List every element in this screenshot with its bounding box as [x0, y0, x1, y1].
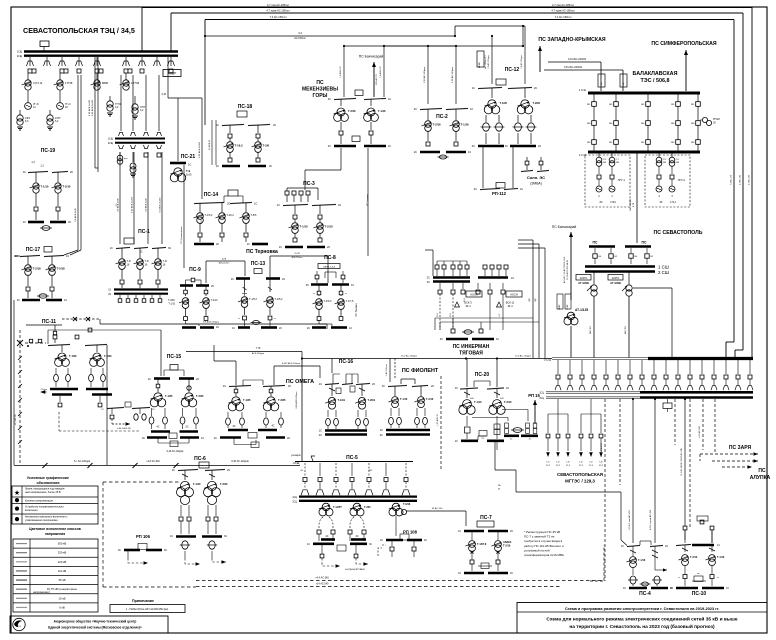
svg-text:1С: 1С [351, 284, 354, 287]
svg-text:4С: 4С [472, 145, 475, 148]
svg-text:55,79 АСО-300 2А,7Б: 55,79 АСО-300 2А,7Б [566, 259, 569, 279]
svg-text:+22 АС-240: +22 АС-240 [698, 425, 701, 437]
svg-text:1СЦ: 1СЦ [539, 393, 544, 395]
svg-text:1С: 1С [520, 188, 523, 191]
svg-text:2АС-240/39: 2АС-240/39 [629, 198, 632, 210]
svg-text:2СЦ: 2СЦ [292, 502, 297, 504]
svg-text:ПС Бахчисарай: ПС Бахчисарай [552, 225, 577, 229]
svg-text:Т-1/07,8: Т-1/07,8 [477, 543, 487, 546]
svg-text:(ЗМВА): (ЗМВА) [530, 182, 542, 186]
svg-text:7,4 АС-150гол: 7,4 АС-150гол [270, 15, 287, 19]
svg-text:ПС: ПС [593, 241, 598, 245]
svg-text:1С: 1С [388, 98, 391, 101]
svg-text:2АС-300: 2АС-300 [589, 325, 592, 334]
svg-text:1С: 1С [455, 440, 458, 443]
svg-text:резерв: резерв [292, 453, 301, 457]
svg-text:напряжения: напряжения [45, 532, 65, 536]
svg-text:2С: 2С [328, 145, 331, 148]
svg-text:ПС-14: ПС-14 [204, 192, 219, 198]
svg-text:ЭкСПДВЭкПВПУВАУВ: ЭкСПДВЭкПВПУВАУВ [345, 568, 365, 571]
svg-text:1С: 1С [470, 108, 473, 111]
svg-text:6,45 АС-120дов: 6,45 АС-120дов [167, 450, 184, 453]
svg-text:1С: 1С [388, 145, 391, 148]
svg-text:2С: 2С [216, 243, 219, 246]
svg-text:2 СШ: 2 СШ [658, 270, 669, 275]
svg-text:1С: 1С [455, 387, 458, 390]
svg-text:4,7 АС-185: 4,7 АС-185 [748, 174, 751, 185]
svg-text:2С: 2С [510, 572, 513, 575]
svg-text:ПС: ПС [758, 468, 766, 474]
svg-text:1С: 1С [511, 277, 514, 280]
svg-text:Т-2/20: Т-2/20 [104, 354, 112, 358]
svg-text:рез: рез [124, 158, 127, 160]
svg-text:* Реконструкция ПС 35 кВ: * Реконструкция ПС 35 кВ [524, 530, 560, 534]
svg-text:7,78: 7,78 [256, 347, 261, 350]
svg-text:6,6 Б,1 прав АС-150: 6,6 Б,1 прав АС-150 [649, 509, 652, 530]
svg-text:3,06 АС-150дов: 3,06 АС-150дов [423, 66, 426, 83]
svg-text:3,18: 3,18 [161, 93, 166, 96]
svg-text:1С: 1С [319, 383, 322, 386]
svg-text:Т-2/5,2: Т-2/5,2 [275, 298, 284, 301]
svg-text:Т-2/19: Т-2/19 [368, 398, 376, 402]
svg-text:4,8 2АС-240/32: 4,8 2АС-240/32 [568, 57, 587, 61]
svg-text:ТЯГОВАЯ: ТЯГОВАЯ [459, 351, 483, 357]
svg-text:1С: 1С [382, 385, 385, 388]
svg-text:1С: 1С [380, 429, 383, 432]
svg-text:ПС Терновка: ПС Терновка [246, 249, 278, 255]
svg-text:3С: 3С [427, 281, 430, 284]
svg-text:6С: 6С [164, 549, 167, 552]
svg-text:0,9 АСБ-3х95: 0,9 АСБ-3х95 [74, 207, 77, 221]
svg-text:35,3: 35,3 [464, 298, 466, 302]
svg-text:4,8 2АС-240/32: 4,8 2АС-240/32 [564, 65, 583, 69]
svg-text:Г-1/: Г-1/ [546, 462, 550, 464]
svg-text:ПС Нахимовская: ПС Нахимовская [181, 226, 183, 244]
svg-text:2С: 2С [327, 246, 330, 249]
svg-text:1С: 1С [148, 378, 151, 381]
svg-text:6,6 Б,1 лев АС-150: 6,6 Б,1 лев АС-150 [628, 510, 631, 530]
svg-text:ОАПВ-Т-0,8: ОАПВ-Т-0,8 [323, 265, 336, 268]
svg-text:Т-1/10: Т-1/10 [400, 398, 408, 401]
svg-text:0,9 АСБ-95: 0,9 АСБ-95 [208, 139, 211, 150]
svg-text:ПС-11: ПС-11 [42, 319, 56, 325]
svg-text:Т-1/10: Т-1/10 [168, 304, 175, 306]
svg-text:Т-20,2: Т-20,2 [227, 214, 235, 217]
svg-text:Схема и программа развития эле: Схема и программа развития электроэнерге… [565, 606, 719, 611]
svg-text:РП 106: РП 106 [136, 534, 151, 539]
svg-text:нт: нт [313, 293, 315, 295]
svg-text:35 кВ: 35 кВ [59, 578, 66, 582]
svg-text:ПС Тоновка: ПС Тоновка [367, 193, 369, 206]
svg-text:500 кВ: 500 кВ [58, 542, 67, 546]
svg-text:1СЩ: 1СЩ [17, 52, 23, 54]
svg-text:34 АС-150: 34 АС-150 [432, 507, 443, 510]
svg-text:+14 АС-240: +14 АС-240 [316, 583, 329, 586]
svg-text:1С: 1С [231, 278, 234, 281]
svg-text:АПВР: АПВР [558, 304, 561, 310]
svg-text:2С: 2С [414, 151, 417, 154]
svg-text:1С: 1С [101, 409, 104, 411]
svg-text:напряжение): напряжение) [33, 590, 50, 594]
svg-text:1С: 1С [254, 203, 257, 206]
svg-text:Т-2/16: Т-2/16 [503, 545, 511, 548]
svg-text:+4,4 АС-240: +4,4 АС-240 [315, 577, 329, 580]
svg-text:Т-2/20: Т-2/20 [533, 101, 541, 105]
svg-text:4,7 лев.АС-185гол: 4,7 лев.АС-185гол [552, 3, 574, 7]
svg-text:0,9 АСБ-3х150: 0,9 АСБ-3х150 [159, 197, 162, 213]
svg-text:1С: 1С [223, 385, 226, 388]
svg-text:1,05 АС-70: 1,05 АС-70 [375, 74, 378, 86]
svg-text:РП-112: РП-112 [492, 191, 507, 196]
svg-text:1С: 1С [172, 469, 175, 472]
svg-text:ПС: ПС [642, 241, 647, 245]
svg-text:6,05 АСБ-2х240: 6,05 АСБ-2х240 [88, 99, 91, 116]
svg-text:10 кВ: 10 кВ [59, 596, 66, 600]
svg-text:0,4Б 3х3БЛ-120: 0,4Б 3х3БЛ-120 [117, 428, 131, 430]
svg-text:2С: 2С [510, 530, 513, 533]
svg-text:2С: 2С [68, 221, 71, 224]
svg-text:ОСЩ: ОСЩ [544, 358, 552, 362]
svg-text:1С: 1С [380, 539, 383, 542]
svg-text:МВМ: МВМ [102, 81, 108, 85]
svg-text:АОПО: АОПО [612, 276, 620, 280]
svg-text:34,4: 34,4 [465, 304, 471, 308]
svg-text:Колонка синхронизации: Колонка синхронизации [25, 500, 53, 503]
svg-text:ПС СИМФЕРОПОЛЬСКАЯ: ПС СИМФЕРОПОЛЬСКАЯ [651, 41, 717, 47]
svg-text:ПС-16: ПС-16 [339, 359, 354, 365]
svg-text:ПС-2: ПС-2 [436, 114, 448, 120]
svg-text:2С: 2С [196, 378, 199, 381]
svg-text:1С: 1С [472, 87, 475, 90]
svg-text:Т-5/18: Т-5/18 [57, 267, 66, 271]
svg-text:ПС-4: ПС-4 [639, 591, 651, 597]
svg-text:АПВР: АПВР [478, 62, 481, 68]
svg-text:СЕВАСТОПОЛЬСКАЯ: СЕВАСТОПОЛЬСКАЯ [557, 472, 603, 477]
svg-text:6,2: 6,2 [499, 314, 501, 317]
svg-text:улавливанием синхронизма: улавливанием синхронизма [25, 519, 58, 522]
svg-text:2С: 2С [670, 587, 673, 590]
svg-text:2С: 2С [440, 338, 443, 341]
svg-text:Т-2/10: Т-2/10 [62, 185, 71, 189]
svg-text:на территории г. Севастополь н: на территории г. Севастополь на 2023 год… [569, 623, 715, 630]
svg-text:Т-1/20: Т-1/20 [500, 101, 508, 105]
svg-text:Т-5/6: Т-5/6 [251, 214, 257, 217]
svg-text:2С: 2С [482, 438, 485, 440]
svg-text:2С: 2С [227, 203, 230, 206]
svg-text:4,7 лев.АС-185гол: 4,7 лев.АС-185гол [267, 3, 289, 7]
svg-text:35,3: 35,3 [437, 313, 439, 317]
svg-text:6,45 АС-120дов: 6,45 АС-120дов [231, 460, 249, 463]
svg-text:3С: 3С [232, 425, 235, 428]
svg-text:1С: 1С [319, 430, 322, 433]
svg-text:Т-2/16: Т-2/16 [433, 123, 442, 127]
svg-text:1С: 1С [110, 247, 113, 250]
svg-text:МЕКЕНЗИЕВЫ: МЕКЕНЗИЕВЫ [302, 87, 338, 93]
svg-text:Г-4/: Г-4/ [579, 462, 583, 464]
svg-text:Г-6/: Г-6/ [599, 462, 603, 464]
svg-text:2С: 2С [288, 385, 291, 388]
svg-text:1,6 АСБ-150: 1,6 АСБ-150 [379, 65, 382, 77]
svg-text:2С: 2С [538, 145, 541, 148]
svg-text:1С: 1С [458, 530, 461, 533]
svg-text:СЕВАСТОПОЛЬСКАЯ ТЭЦ / 34,5: СЕВАСТОПОЛЬСКАЯ ТЭЦ / 34,5 [23, 26, 135, 35]
svg-text:Схема для нормального режима э: Схема для нормального режима электрическ… [546, 616, 737, 623]
svg-text:БАЛАКЛАВСКАЯ: БАЛАКЛАВСКАЯ [633, 71, 678, 77]
svg-text:ПС СЕВАСТОПОЛЬ: ПС СЕВАСТОПОЛЬ [654, 230, 703, 236]
svg-text:ПС ФИОЛЕНТ: ПС ФИОЛЕНТ [402, 368, 439, 374]
svg-text:1С: 1С [510, 439, 513, 441]
svg-text:Т-1/25: Т-1/25 [243, 398, 251, 402]
svg-text:АС-120исп 2,1: АС-120исп 2,1 [484, 54, 487, 68]
svg-text:ПС-19: ПС-19 [41, 148, 56, 154]
svg-text:ПГУ-2: ПГУ-2 [678, 178, 686, 182]
svg-text:0,9 АСБ-3х95: 0,9 АСБ-3х95 [145, 197, 148, 211]
svg-text:4С: 4С [156, 426, 159, 429]
svg-text:1С: 1С [216, 165, 219, 168]
svg-text:ПС-13: ПС-13 [251, 261, 266, 267]
svg-text:ПС-7 с заменой Т2 не: ПС-7 с заменой Т2 не [524, 535, 555, 539]
svg-text:ПС: ПС [316, 80, 324, 86]
svg-text:ПС-5: ПС-5 [346, 455, 358, 461]
svg-text:БСВР: БСВР [567, 304, 569, 310]
svg-text:2С: 2С [325, 535, 328, 538]
svg-text:1СЦ: 1СЦ [292, 497, 297, 499]
svg-text:ПС ЗАРЯ: ПС ЗАРЯ [729, 445, 752, 451]
svg-text:ПС-18: ПС-18 [238, 104, 253, 110]
svg-text:+0,7 АС-95: +0,7 АС-95 [14, 414, 17, 426]
svg-text:2С: 2С [273, 124, 276, 127]
svg-text:вкг: вкг [697, 573, 700, 575]
svg-text:МГТЭС / 129,3: МГТЭС / 129,3 [565, 479, 595, 484]
svg-text:Т-2/40: Т-2/40 [220, 482, 228, 486]
svg-text:ПГУ-1: ПГУ-1 [618, 178, 626, 182]
svg-text:1С: 1С [188, 163, 191, 167]
svg-text:0,28 АС-150дов: 0,28 АС-150дов [451, 66, 454, 83]
svg-text:ПС-20: ПС-20 [475, 372, 490, 378]
svg-text:Т-4/6С: Т-4/6С [168, 300, 175, 302]
svg-text:1С: 1С [279, 246, 282, 249]
svg-text:ПС-8: ПС-8 [324, 255, 336, 261]
svg-text:Т-1/16: Т-1/16 [638, 559, 646, 562]
svg-text:1С: 1С [247, 243, 250, 246]
svg-text:Т-16,3: Т-16,3 [235, 144, 244, 148]
svg-text:1С: 1С [216, 124, 219, 127]
svg-text:2С: 2С [427, 277, 430, 280]
svg-text:ПС-10: ПС-10 [692, 591, 707, 597]
svg-text:1,6 АСБ-150: 1,6 АСБ-150 [339, 65, 342, 77]
svg-text:Т-1/25: Т-1/25 [165, 394, 173, 398]
svg-text:2С: 2С [380, 434, 383, 437]
svg-text:15,2 АС-150дов: 15,2 АС-150дов [401, 355, 418, 358]
svg-text:ПС-6: ПС-6 [194, 456, 206, 462]
svg-text:1С: 1С [64, 299, 67, 302]
svg-text:0,63: 0,63 [186, 173, 192, 177]
svg-text:4С: 4С [355, 535, 358, 538]
svg-text:АТ-3/399: АТ-3/399 [578, 281, 589, 285]
svg-text:2С: 2С [414, 108, 417, 111]
svg-text:Т-2/25: Т-2/25 [278, 398, 286, 402]
svg-text:1С: 1С [66, 255, 69, 258]
svg-text:173А: 173А [610, 201, 616, 204]
svg-text:1С: 1С [23, 171, 26, 174]
svg-text:Т-1/5,2: Т-1/5,2 [249, 298, 258, 301]
svg-text:С(Т1 14: С(Т1 14 [33, 81, 43, 85]
svg-text:2С: 2С [17, 299, 20, 302]
svg-text:трансформаторов 2х16 МВА: трансформаторов 2х16 МВА [524, 553, 564, 557]
svg-text:1С: 1С [232, 327, 235, 330]
svg-text:1СЩ: 1СЩ [108, 139, 114, 141]
svg-text:2С: 2С [227, 469, 230, 472]
svg-text:2С: 2С [431, 385, 434, 388]
svg-text:Цветовое исполнение классов: Цветовое исполнение классов [29, 527, 81, 531]
svg-text:Условные графические: Условные графические [27, 476, 69, 480]
svg-text:7,2 АС-150дов: 7,2 АС-150дов [487, 55, 490, 68]
svg-text:ПС-1: ПС-1 [138, 229, 150, 235]
svg-text:3С: 3С [224, 535, 227, 538]
svg-text:1С: 1С [621, 545, 624, 548]
svg-text:4С: 4С [271, 425, 274, 428]
svg-text:1S: 1S [108, 290, 111, 292]
svg-text:3С: 3С [306, 284, 309, 287]
svg-text:1 С.Ш: 1 С.Ш [579, 88, 587, 92]
svg-text:работу ПС 110 кВ Фиолент и: работу ПС 110 кВ Фиолент и [524, 544, 564, 548]
svg-text:2С: 2С [319, 434, 322, 437]
svg-text:1ТГ38: 1ТГ38 [65, 81, 73, 85]
svg-text:2С: 2С [211, 285, 214, 288]
svg-text:АОСН: АОСН [470, 293, 478, 297]
svg-text:АС-150гол: АС-150гол [294, 37, 306, 40]
svg-text:ГОРЫ: ГОРЫ [313, 93, 328, 99]
svg-text:2С: 2С [287, 437, 290, 440]
svg-text:1С: 1С [277, 204, 280, 207]
svg-text:21,5 АС-240 АС-185/29-41,5 ПБ: 21,5 АС-240 АС-185/29-41,5 ПБ [680, 447, 683, 475]
svg-text:3С: 3С [118, 549, 121, 552]
svg-text:АСБ-120исп: АСБ-120исп [292, 256, 303, 259]
svg-text:2С: 2С [185, 426, 188, 429]
svg-text:Т-1/25Т: Т-1/25Т [333, 506, 342, 509]
svg-text:ным напряжением, более 25 В: ным напряжением, более 25 В [25, 491, 61, 494]
svg-text:НТЦ: НТЦ [16, 626, 21, 628]
svg-text:1С: 1С [307, 543, 310, 546]
svg-text:АОПО: АОПО [580, 276, 588, 280]
svg-text:ПС-21: ПС-21 [181, 154, 196, 160]
svg-text:2С: 2С [279, 327, 282, 330]
svg-text:4,7 прав.АС-185гол: 4,7 прав.АС-185гол [266, 9, 290, 13]
svg-text:Т-1/10: Т-1/10 [717, 556, 725, 559]
svg-text:ПС-7: ПС-7 [480, 515, 492, 521]
svg-text:Т-9/16: Т-9/16 [403, 503, 411, 506]
svg-text:ПС ЗАПАДНО-КРЫМСКАЯ: ПС ЗАПАДНО-КРЫМСКАЯ [538, 37, 605, 43]
svg-text:173,4: 173,4 [670, 201, 677, 204]
svg-text:нт: нт [717, 577, 719, 579]
svg-text:9,052 АСК-120исп: 9,052 АСК-120исп [282, 362, 301, 365]
svg-text:Т-2/6,3: Т-2/6,3 [324, 300, 333, 303]
svg-text:110 кВ: 110 кВ [58, 569, 66, 573]
svg-text:2С: 2С [307, 327, 310, 330]
svg-text:0,55 АСБ-3х150: 0,55 АСБ-3х150 [198, 141, 201, 158]
svg-text:ПС-17: ПС-17 [26, 247, 41, 253]
svg-text:ПС-12: ПС-12 [505, 67, 520, 73]
svg-text:12,5 АС-120дов: 12,5 АС-120дов [515, 354, 532, 357]
svg-text:ТЭС / 506,8: ТЭС / 506,8 [640, 78, 669, 84]
svg-text:Т-205: Т-205 [364, 506, 371, 509]
svg-text:2С: 2С [338, 204, 341, 207]
svg-text:Т-2/25: Т-2/25 [196, 394, 204, 398]
svg-text:1 СШ: 1 СШ [658, 265, 669, 270]
svg-text:1 АС-120лев: 1 АС-120лев [385, 364, 388, 376]
svg-text:1С: 1С [717, 544, 720, 547]
svg-text:2С: 2С [328, 98, 331, 101]
svg-text:21,4 АСБ-150: 21,4 АСБ-150 [600, 442, 603, 456]
svg-text:2С: 2С [269, 165, 272, 168]
svg-text:★: ★ [14, 489, 20, 497]
svg-text:АЛУПКА: АЛУПКА [750, 475, 771, 481]
svg-text:Г-3/: Г-3/ [566, 462, 570, 464]
svg-text:АТ-1/125: АТ-1/125 [575, 308, 588, 312]
svg-text:Солн. ЭС: Солн. ЭС [527, 175, 545, 180]
svg-text:Т-1/5,2: Т-1/5,2 [205, 214, 214, 217]
svg-text:+4,8 АС-240: +4,8 АС-240 [146, 460, 160, 463]
svg-text:1,05 АСБ-10: 1,05 АСБ-10 [436, 413, 439, 425]
svg-text:2С: 2С [70, 171, 73, 174]
svg-text:1 - ПвПнг/У(2хк-НР 1х1200/150: 1 - ПвПнг/У(2хк-НР 1х1200/150 (мк) [126, 607, 169, 611]
svg-text:Т-2/10: Т-2/10 [426, 398, 434, 401]
svg-text:2С: 2С [216, 326, 219, 329]
svg-text:обозначения: обозначения [37, 481, 60, 485]
svg-text:6,05 АСБ-2х240: 6,05 АСБ-2х240 [91, 99, 94, 116]
svg-text:1С: 1С [214, 437, 217, 440]
svg-text:АПВР: АПВР [168, 72, 177, 76]
svg-text:2С: 2С [534, 87, 537, 90]
svg-text:2СЩ: 2СЩ [17, 56, 23, 58]
svg-text:3С: 3С [168, 247, 171, 250]
svg-text:Т-2/18: Т-2/18 [33, 267, 42, 271]
svg-text:2АС-300: 2АС-300 [624, 325, 627, 334]
svg-text:3С: 3С [142, 437, 145, 440]
svg-text:2С: 2С [152, 409, 155, 411]
svg-text:3С: 3С [369, 543, 372, 546]
svg-text:0,55 АСБ-3х150: 0,55 АСБ-3х150 [131, 196, 134, 213]
svg-text:ПС-15: ПС-15 [167, 354, 182, 360]
svg-text:Т-1/7,5: Т-1/7,5 [346, 300, 355, 303]
svg-text:Единой энергетической системы: Единой энергетической системы (Московско… [48, 626, 142, 630]
svg-text:2С: 2С [424, 539, 427, 542]
svg-text:Т-1/16: Т-1/16 [378, 109, 386, 113]
svg-text:Т-2/10: Т-2/10 [211, 299, 219, 302]
svg-text:Т-2/10: Т-2/10 [325, 225, 334, 229]
svg-text:В5: В5 [301, 470, 303, 472]
svg-text:6 кВ: 6 кВ [59, 605, 65, 609]
svg-text:4,7 АС-185: 4,7 АС-185 [739, 174, 742, 185]
svg-text:Т-1/16: Т-1/16 [461, 123, 470, 127]
svg-text:ПС Бахчисарай: ПС Бахчисарай [359, 55, 384, 59]
svg-text:РП 15: РП 15 [528, 393, 540, 398]
svg-text:Т-2/6: Т-2/6 [263, 144, 270, 148]
svg-text:1С: 1С [496, 338, 499, 341]
svg-text:АОСН: АОСН [510, 293, 518, 297]
svg-text:Т-1/40: Т-1/40 [193, 482, 201, 486]
svg-text:ПС Тоновка: ПС Тоновка [355, 303, 358, 317]
svg-text:1/ТГ08: 1/ТГ08 [131, 81, 140, 85]
svg-text:2С: 2С [665, 545, 668, 548]
svg-text:1С: 1С [458, 572, 461, 575]
svg-text:5-т АС-120дов: 5-т АС-120дов [74, 460, 91, 463]
svg-text:2СЩ: 2СЩ [108, 143, 114, 145]
svg-text:7,4 АС-150гол: 7,4 АС-150гол [555, 15, 572, 19]
svg-text:3С: 3С [505, 145, 508, 148]
svg-text:Т-1/19: Т-1/19 [338, 398, 346, 402]
svg-text:2С: 2С [529, 439, 532, 441]
